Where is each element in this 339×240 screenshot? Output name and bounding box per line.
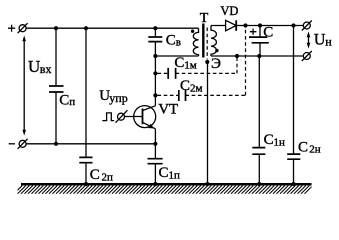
plus label of C [250,29,257,35]
node C2н top [291,23,295,27]
diode VD [226,20,237,31]
ground hatching [14,186,313,194]
capacitor C1м dashed link [158,58,238,79]
+ polarity label [8,25,15,32]
node Cв bottom [153,54,157,58]
emitter arrowhead [148,124,154,129]
svg-text:С: С [166,33,176,49]
svg-text:С: С [174,55,184,71]
wire bottom-left rail [26,143,156,145]
node C2м left [153,93,157,97]
transformer core [202,24,204,58]
terminal -input [18,139,28,149]
svg-text:1п: 1п [169,169,181,181]
node C2п top [84,26,88,30]
node C2м top [243,23,247,27]
svg-text:U: U [314,31,326,48]
ground node screen [205,182,209,186]
ground node C2п [84,182,88,186]
svg-text:С: С [298,139,308,155]
capacitor C1п [148,159,163,164]
node C top [258,23,262,27]
capacitor C2п [79,28,92,184]
svg-text:VD: VD [220,4,238,18]
node C1н top [257,54,261,58]
svg-text:С: С [59,93,69,109]
terminal +input [18,23,28,33]
minus polarity label [9,143,15,145]
svg-text:С: С [90,167,100,183]
svg-text:2н: 2н [309,144,321,156]
node C1м left [153,71,157,75]
svg-text:С: С [264,132,274,148]
node Cп top [54,26,58,30]
transistor VT [134,106,156,129]
ground node C1н [257,182,261,186]
svg-text:U: U [28,57,40,76]
svg-text:в: в [176,37,181,49]
svg-text:С: С [263,24,273,40]
svg-text:С: С [159,165,169,181]
pulse symbol [102,113,114,121]
transformer screen (dashed) [206,28,208,60]
svg-text:вх: вх [40,62,52,76]
transformer T primary winding [193,28,198,56]
transformer secondary winding [211,26,216,57]
terminal output + [302,21,312,31]
ground node C1п [153,182,157,186]
wire secondary top [211,25,304,27]
wire secondary bottom to output [211,55,304,57]
svg-text:п: п [69,96,75,108]
capacitor C2н [287,26,300,185]
capacitor Cп [49,28,64,144]
svg-text:1н: 1н [274,136,286,148]
capacitor Cв [148,37,162,42]
terminal control input [116,110,128,123]
node Cп bottom [54,142,58,146]
capacitor C2м dashed link [158,26,246,102]
wire top-left rail [26,27,199,29]
wire base lead [124,116,142,118]
capacitor C1н [252,56,265,184]
svg-text:2м: 2м [190,83,203,95]
svg-text:н: н [325,35,332,49]
ground bar [21,183,312,186]
wire screen to ground [207,62,209,184]
wire primary bottom [155,55,198,57]
U_вх arrow [22,35,26,135]
emitter vertical wire [154,129,156,159]
screen ground node [205,60,209,64]
secondary polarity dot [215,49,218,52]
terminal output - [302,51,312,61]
svg-text:Э: Э [211,56,221,72]
svg-text:С: С [180,78,190,94]
capacitor C [249,26,269,57]
primary polarity dot [191,30,194,33]
node C1м top [235,54,239,58]
ground node C2н [291,182,295,186]
svg-text:VT: VT [158,102,178,118]
collector vertical wire [154,28,156,37]
svg-text:T: T [200,11,209,26]
svg-text:1м: 1м [184,59,197,71]
svg-text:2п: 2п [102,172,114,184]
node Cв top [153,26,157,30]
U_н arrow [307,31,311,48]
svg-text:упр: упр [109,91,127,105]
node emitter [153,142,157,146]
